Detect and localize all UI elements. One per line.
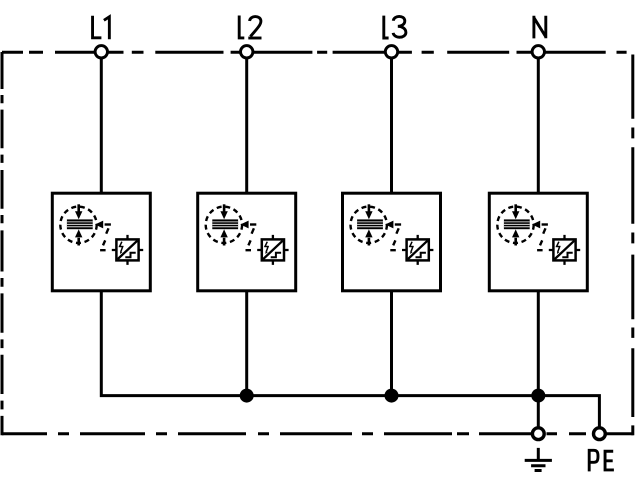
wire L3 bottom (SPD to PE bus): [390, 291, 393, 396]
terminal N: [532, 46, 544, 58]
bottom arrow into spark gap F2: [220, 229, 227, 245]
junction dot L3/PE bus: [385, 389, 399, 403]
label L1: [93, 16, 110, 40]
junction dot N/PE bus: [531, 389, 545, 403]
wire N bottom (SPD to PE bus): [537, 291, 540, 396]
trigger circuit square F2: [257, 235, 288, 265]
terminal PE: [594, 428, 606, 440]
dashed trigger link F3: [390, 228, 398, 250]
wire L2 top (terminal to SPD): [245, 52, 248, 193]
side trigger arrow F3: [385, 221, 401, 229]
ground symbol: [525, 448, 552, 471]
spark gap dashed circle F3: [351, 207, 387, 243]
terminal L3: [385, 46, 397, 58]
top arrow into spark gap F3: [365, 204, 372, 219]
wire N top (terminal to SPD): [537, 52, 540, 193]
dashed trigger link F1: [100, 228, 108, 250]
label L2: [239, 16, 261, 39]
trigger circuit square F3: [402, 235, 433, 265]
bottom arrow into spark gap F1: [75, 229, 82, 245]
SPD module F1 box (L1 arrester): [52, 193, 150, 291]
spark gap dashed circle F1: [60, 207, 96, 243]
step waveform glyph F4: [562, 253, 572, 258]
side trigger arrow F4: [532, 221, 548, 229]
top arrow into spark gap F1: [75, 204, 82, 219]
wire L3 top (terminal to SPD): [390, 52, 393, 193]
side trigger arrow F2: [240, 221, 256, 229]
terminal earth (bottom, N column): [532, 428, 544, 440]
lightning impulse glyph F4: [557, 242, 560, 254]
label N: [534, 16, 547, 39]
trigger circuit square F4: [549, 235, 580, 265]
side trigger arrow F1: [95, 221, 111, 229]
spark gap dashed circle F4: [497, 207, 533, 243]
spark gap dashed circle F2: [206, 207, 242, 243]
lightning impulse glyph F3: [410, 242, 413, 254]
dashed trigger link F2: [246, 228, 254, 250]
enclosure border bottom (dash-dot): [2, 432, 634, 435]
trigger circuit square F1: [112, 235, 143, 265]
lightning impulse glyph F2: [265, 242, 268, 254]
step waveform glyph F3: [416, 253, 426, 258]
junction dot L2/PE bus: [240, 389, 254, 403]
step waveform glyph F2: [271, 253, 281, 258]
lightning impulse glyph F1: [120, 242, 123, 254]
SPD module F4 box (N arrester): [489, 193, 587, 291]
bottom arrow into spark gap F4: [512, 229, 519, 245]
enclosure border top (dash-dot): [2, 51, 627, 54]
terminal L1: [95, 46, 107, 58]
spark gap electrode stack F4: [504, 219, 530, 229]
bottom arrow into spark gap F3: [365, 229, 372, 245]
wire L1 top (terminal to SPD): [100, 52, 103, 193]
spark gap electrode stack F3: [357, 219, 383, 229]
spark gap electrode stack F1: [67, 219, 93, 229]
label L3: [384, 16, 406, 38]
enclosure border left (dash-dot): [1, 52, 4, 435]
spark gap electrode stack F2: [212, 219, 238, 229]
SPD module F2 box (L2 arrester): [198, 193, 296, 291]
SPD module F3 box (L3 arrester): [343, 193, 441, 291]
top arrow into spark gap F2: [220, 204, 227, 219]
wire L1 bottom + PE bus + drop to PE terminal: [101, 291, 599, 434]
step waveform glyph F1: [125, 253, 135, 258]
enclosure border right (dash-dot): [631, 55, 634, 436]
wire N bus to bottom earth terminal: [537, 396, 540, 434]
terminal L2: [241, 46, 253, 58]
dashed trigger link F4: [537, 228, 545, 250]
top arrow into spark gap F4: [512, 204, 519, 219]
label PE: [589, 450, 614, 471]
wire L2 bottom (SPD to PE bus): [245, 291, 248, 396]
